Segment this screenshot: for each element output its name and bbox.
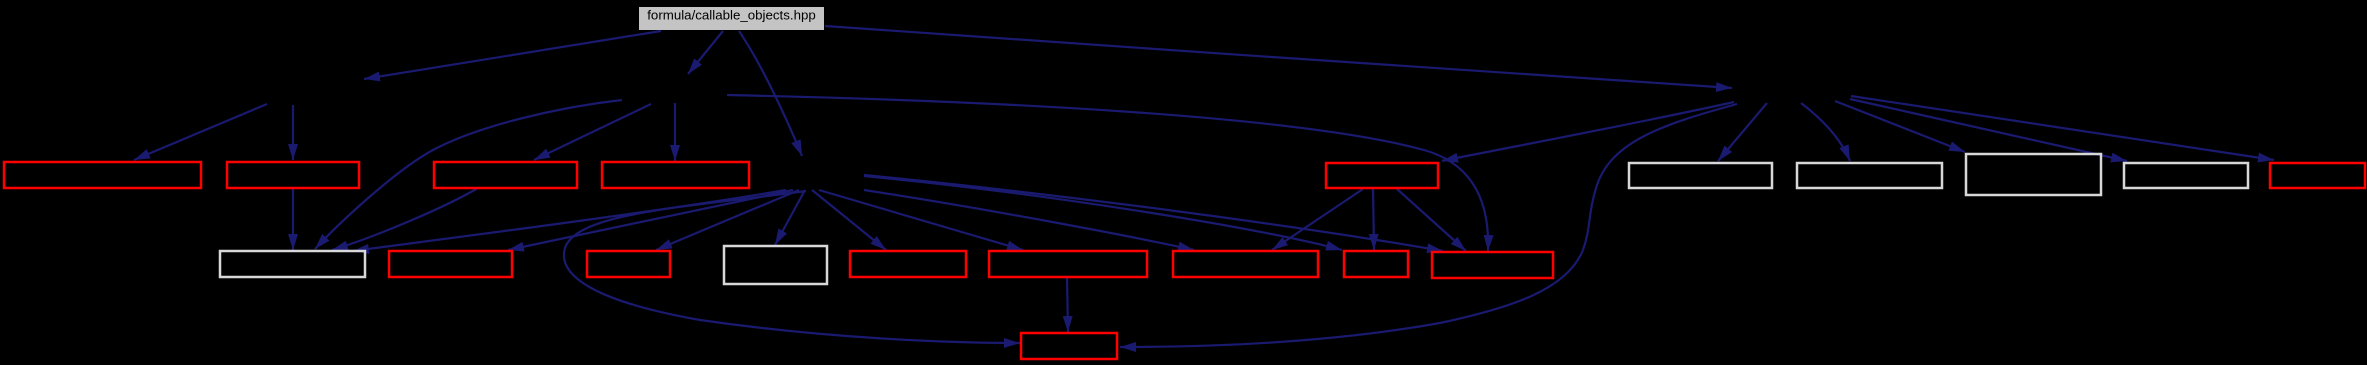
edge: hub3 -> box BF (819, 190, 1023, 250)
edge: title -> hub-left (364, 31, 661, 79)
edge: hub2 -> box W7 (1801, 103, 1850, 161)
edge: hub-left -> box B1 (134, 104, 267, 160)
edge: hub2 -> box B5 (1442, 102, 1734, 161)
edge: box B2 -> box WA (292, 188, 294, 250)
edge: hub1 -> box WA (315, 100, 622, 249)
node: box W7 (white) (1797, 163, 1942, 188)
edge: hub2 -> box B10 (1851, 96, 2274, 160)
node: box BB (red) (389, 251, 512, 277)
node: box B10 (red) (2270, 163, 2365, 188)
edge: hub1 -> box B4 (674, 103, 676, 161)
edge: hub2 -> box W6 (1718, 103, 1767, 161)
node: box BX (red, bottom) (1021, 333, 1117, 359)
node: box BE (red) (850, 251, 966, 277)
node: box BC (red) (587, 251, 670, 277)
edge: title -> hub1 (688, 31, 723, 74)
node: box WD (white, tall) (724, 246, 827, 284)
edge: hub3 -> box BE (812, 190, 886, 250)
node: box B1 (red) (4, 162, 201, 188)
edge: hub2 -> box W9 (1850, 99, 2127, 161)
node: box B2 (red) (227, 162, 359, 188)
node: box W9 (white) (2124, 163, 2248, 188)
node: box BG (red) (1173, 251, 1318, 277)
edge: hub3 -> box BG (864, 190, 1194, 250)
node: box BI (red) (1432, 252, 1553, 278)
edge: box BF -> box BX (1067, 277, 1068, 332)
node: box B5 (red) (1326, 163, 1438, 188)
edge: hub3 -> box BB (508, 190, 793, 250)
edge: box B5 -> box BG (1272, 189, 1363, 250)
edge: box B5 -> box BI (1397, 189, 1466, 251)
node: box BH (red) (1344, 251, 1408, 277)
node: box B3 (red) (434, 162, 577, 188)
node: box BF (red) (989, 251, 1147, 277)
node: title box formula/callable_objects.hpp (639, 7, 824, 30)
edge: hub2 -> box W8 (1835, 101, 1965, 152)
node: box W6 (white) (1629, 163, 1772, 188)
edge: hub1 -> box BI (727, 95, 1488, 251)
edge: hub2 -> box BX (right arc) (1120, 104, 1737, 347)
node: box WA (white) (220, 251, 365, 277)
edge: hub3 -> box BX (left U-curve) (564, 191, 1020, 343)
edge: box B5 -> box BH (1373, 189, 1374, 250)
edge: hub3 -> box WD (775, 190, 805, 245)
node: box W8 (white, tall) (1966, 154, 2101, 195)
edge: title -> hub2 (825, 26, 1732, 88)
edge: title -> hub3 (739, 31, 802, 156)
node: box B4 (red) (602, 162, 749, 188)
edge: hub3 -> box BI (864, 175, 1443, 251)
edge: hub3 -> box WA (353, 190, 786, 251)
edge: box B3 -> box WA (332, 188, 478, 250)
edge: hub3 -> box BH (864, 176, 1342, 250)
edge: hub-left -> box B2 (292, 105, 294, 160)
edge: hub1 -> box B3 (534, 104, 651, 160)
svg-text:formula/callable_objects.hpp: formula/callable_objects.hpp (647, 8, 816, 23)
edge: hub3 -> box BC (656, 190, 799, 250)
